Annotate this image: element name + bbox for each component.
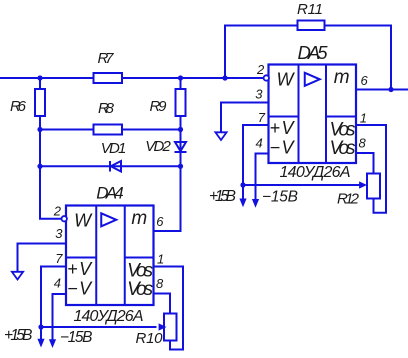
svg-text:+V: +V xyxy=(67,259,93,279)
svg-text:m: m xyxy=(131,208,147,229)
svg-text:R11: R11 xyxy=(297,1,323,18)
svg-text:W: W xyxy=(277,70,296,90)
svg-text:−V: −V xyxy=(270,138,296,158)
svg-text:6: 6 xyxy=(361,73,369,88)
svg-text:VD2: VD2 xyxy=(145,138,171,155)
svg-text:Vos: Vos xyxy=(127,279,154,300)
svg-text:2: 2 xyxy=(53,204,62,219)
svg-text:R7: R7 xyxy=(98,50,115,67)
svg-text:DA4: DA4 xyxy=(96,184,124,203)
svg-text:R6: R6 xyxy=(10,98,27,115)
svg-text:7: 7 xyxy=(55,251,63,266)
svg-text:140УД26А: 140УД26А xyxy=(280,164,351,181)
svg-text:1: 1 xyxy=(157,252,164,267)
svg-text:140УД26А: 140УД26А xyxy=(74,308,144,325)
svg-text:−15В: −15В xyxy=(262,189,298,206)
svg-text:−15В: −15В xyxy=(60,329,93,346)
svg-text:4: 4 xyxy=(54,276,61,291)
svg-text:m: m xyxy=(334,67,350,88)
svg-text:8: 8 xyxy=(359,135,367,150)
svg-text:4: 4 xyxy=(256,136,263,151)
svg-text:Vos: Vos xyxy=(330,138,357,159)
svg-text:3: 3 xyxy=(55,226,63,241)
svg-text:3: 3 xyxy=(255,86,263,101)
svg-text:W: W xyxy=(74,211,93,231)
svg-text:R12: R12 xyxy=(337,191,360,208)
svg-text:8: 8 xyxy=(156,276,164,291)
svg-text:6: 6 xyxy=(156,214,164,229)
svg-text:1: 1 xyxy=(360,111,367,126)
svg-text:VD1: VD1 xyxy=(101,140,127,157)
svg-text:R9: R9 xyxy=(150,98,168,115)
svg-text:2: 2 xyxy=(256,62,265,77)
svg-text:+15В: +15В xyxy=(209,188,236,205)
svg-text:+15В: +15В xyxy=(4,327,33,344)
svg-text:−V: −V xyxy=(67,279,93,299)
svg-text:R8: R8 xyxy=(98,100,115,117)
svg-text:+V: +V xyxy=(270,118,296,138)
svg-text:DA5: DA5 xyxy=(298,42,329,63)
svg-text:R10: R10 xyxy=(136,330,164,347)
svg-text:7: 7 xyxy=(258,110,266,125)
